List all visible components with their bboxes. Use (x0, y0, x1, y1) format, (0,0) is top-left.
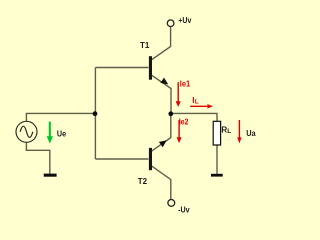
svg-text:+Uv: +Uv (178, 16, 192, 25)
svg-text:T1: T1 (140, 41, 150, 50)
svg-text:-Uv: -Uv (178, 205, 190, 214)
svg-text:Ie2: Ie2 (179, 117, 189, 126)
svg-text:Ua: Ua (246, 129, 256, 138)
svg-text:L: L (195, 99, 199, 105)
svg-text:Ie1: Ie1 (180, 79, 191, 88)
svg-text:L: L (227, 128, 231, 135)
svg-text:Ue: Ue (57, 130, 67, 139)
svg-text:T2: T2 (138, 177, 148, 186)
